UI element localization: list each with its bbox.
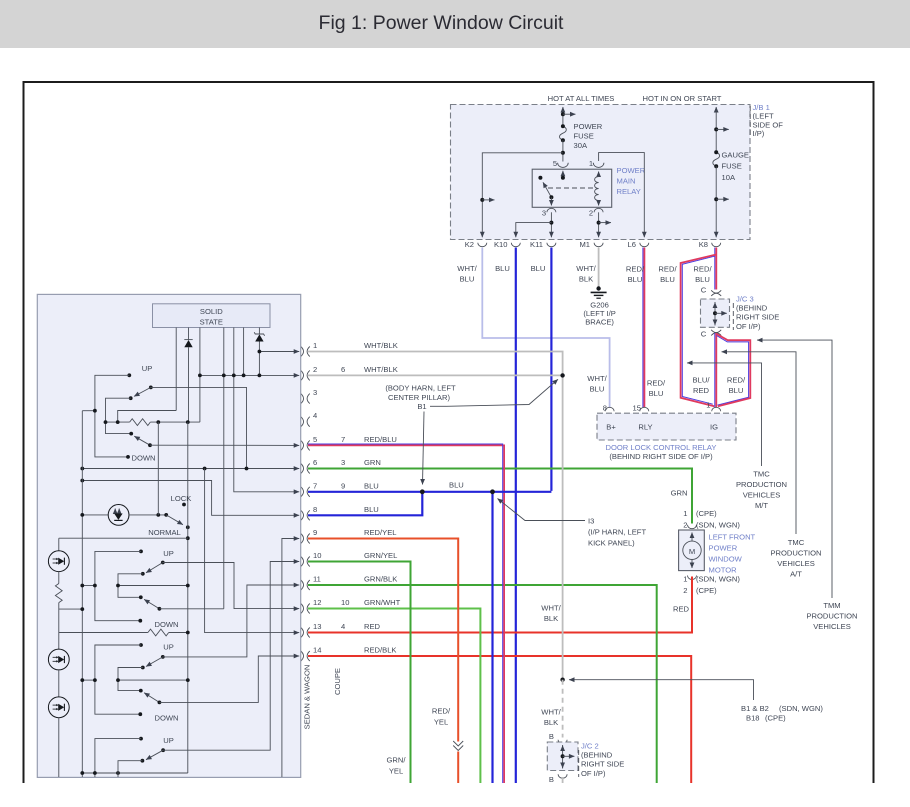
wire BLU from K10 (runs to bottom) bbox=[515, 248, 517, 784]
svg-text:30A: 30A bbox=[574, 141, 588, 150]
pin 5 of master switch connector bbox=[301, 440, 304, 450]
relay coil bbox=[598, 172, 600, 177]
svg-text:4: 4 bbox=[341, 622, 345, 631]
svg-text:YEL: YEL bbox=[389, 767, 403, 776]
SOLID STATE (box) bbox=[153, 304, 271, 328]
svg-text:RIGHT SIDE: RIGHT SIDE bbox=[736, 313, 779, 322]
svg-text:MOTOR: MOTOR bbox=[709, 566, 738, 575]
svg-text:TMC: TMC bbox=[788, 538, 805, 547]
switch 3 up output riser to pin 11 bbox=[163, 585, 299, 657]
svg-text:L6: L6 bbox=[628, 240, 636, 249]
driver switch blade up bbox=[149, 386, 153, 390]
photocoupler chain to PC3 bbox=[58, 633, 60, 650]
pin 7 of master switch connector bbox=[301, 487, 304, 497]
pin 3 connector arc bbox=[547, 208, 556, 212]
lock/normal switch blade bbox=[166, 515, 183, 525]
svg-text:WHT/BLK: WHT/BLK bbox=[364, 365, 398, 374]
pin 8 of master switch connector bbox=[301, 510, 304, 520]
svg-text:BLU: BLU bbox=[695, 275, 710, 284]
power fuse 30A feed wire from HOT AT ALL TIMES bbox=[562, 107, 564, 114]
svg-text:PRODUCTION: PRODUCTION bbox=[736, 480, 787, 489]
switch 2 blade up bbox=[161, 561, 165, 565]
svg-text:DOWN: DOWN bbox=[155, 620, 179, 629]
resistor R2 (vertical) bbox=[55, 584, 62, 603]
svg-text:BLU: BLU bbox=[628, 275, 643, 284]
svg-text:VEHICLES: VEHICLES bbox=[813, 622, 851, 631]
svg-text:J/C 2: J/C 2 bbox=[581, 742, 599, 751]
svg-text:11: 11 bbox=[313, 575, 321, 584]
zener diode D2 on drop x=259.4 bbox=[258, 328, 260, 335]
switch 4 blade up bbox=[161, 748, 165, 752]
switch 2 down output to lane 223.8 bbox=[159, 608, 223, 610]
svg-text:FUSE: FUSE bbox=[574, 132, 594, 141]
svg-text:PRODUCTION: PRODUCTION bbox=[806, 612, 857, 621]
wire pin2 to M1 bbox=[598, 212, 600, 237]
svg-text:WHT/: WHT/ bbox=[576, 264, 596, 273]
svg-text:BLU: BLU bbox=[660, 275, 675, 284]
fuse POWER FUSE 30A (element) bbox=[560, 126, 567, 140]
svg-text:(CPE): (CPE) bbox=[696, 509, 717, 518]
svg-text:12: 12 bbox=[313, 598, 321, 607]
svg-text:9: 9 bbox=[313, 528, 317, 537]
svg-text:M: M bbox=[689, 547, 695, 556]
switch 2 bus feed bbox=[82, 585, 95, 587]
wire BLU/RED center from C to relay pin 1 bbox=[714, 333, 716, 407]
svg-text:B18: B18 bbox=[746, 714, 760, 723]
svg-text:STATE: STATE bbox=[200, 318, 223, 327]
svg-text:PRODUCTION: PRODUCTION bbox=[770, 549, 821, 558]
wire branch left to K2 drop bbox=[482, 153, 563, 238]
svg-text:BLK: BLK bbox=[544, 614, 558, 623]
svg-text:2: 2 bbox=[589, 209, 593, 218]
photocoupler PC1 bbox=[108, 505, 129, 526]
pointer TMM production vehicles bbox=[757, 340, 832, 598]
switch 3 down output riser to pin 14 bbox=[159, 656, 299, 702]
svg-text:6: 6 bbox=[313, 458, 317, 467]
pin 1 connector arc bbox=[593, 163, 604, 168]
relay actuation dashed link bbox=[548, 187, 597, 189]
svg-text:BLU: BLU bbox=[460, 275, 475, 284]
callout I3 (I/P HARN, LEFT KICK PANEL) bbox=[498, 499, 586, 521]
svg-text:(LEFT: (LEFT bbox=[753, 112, 774, 121]
link NORMAL rail to photo chain bbox=[59, 537, 188, 539]
svg-text:FUSE: FUSE bbox=[722, 162, 742, 171]
svg-text:(BEHIND RIGHT SIDE OF I/P): (BEHIND RIGHT SIDE OF I/P) bbox=[609, 452, 713, 461]
master power window switch (box) bbox=[37, 294, 300, 777]
svg-text:C: C bbox=[701, 286, 707, 295]
svg-text:GRN: GRN bbox=[364, 458, 381, 467]
branch stub arrow at power fuse feed bbox=[563, 113, 576, 115]
svg-text:(BEHIND: (BEHIND bbox=[736, 304, 768, 313]
junction dot below fuse bbox=[561, 151, 565, 155]
pin 13 of master switch connector bbox=[301, 628, 304, 638]
solid state drop wires bbox=[175, 328, 177, 411]
wire RED/BLU left branch from K8 to relay pin 1 bbox=[682, 256, 714, 404]
svg-text:TMC: TMC bbox=[753, 470, 770, 479]
wire WHT/BLK from M1 to ground bbox=[598, 248, 600, 288]
svg-text:BLU: BLU bbox=[449, 481, 464, 490]
pin 1 of master switch connector bbox=[301, 347, 304, 357]
photocoupler PC3 bbox=[48, 649, 69, 670]
svg-text:COUPE: COUPE bbox=[333, 668, 342, 695]
pin 9 of master switch connector bbox=[301, 534, 304, 544]
wire RED/YEL from master switch pin 9 bbox=[308, 539, 458, 742]
svg-text:VEHICLES: VEHICLES bbox=[777, 559, 815, 568]
svg-text:GRN/: GRN/ bbox=[387, 756, 407, 765]
svg-text:BLU: BLU bbox=[364, 481, 379, 490]
svg-text:WINDOW: WINDOW bbox=[709, 555, 743, 564]
switch 2 DOWN contact bbox=[138, 619, 142, 623]
svg-text:RED/: RED/ bbox=[432, 707, 451, 716]
svg-text:WHT/: WHT/ bbox=[541, 604, 561, 613]
switch 2 blade down bbox=[139, 595, 143, 599]
svg-text:A/T: A/T bbox=[790, 570, 802, 579]
svg-text:B: B bbox=[549, 732, 554, 741]
svg-text:RELAY: RELAY bbox=[617, 187, 641, 196]
svg-text:NORMAL: NORMAL bbox=[148, 528, 181, 537]
junction block J/B 1 (dashed box) bbox=[451, 105, 751, 240]
svg-text:10: 10 bbox=[313, 551, 321, 560]
wire GRN from master switch pin 6 to motor bbox=[308, 469, 692, 524]
resistor R1 row bbox=[106, 421, 130, 423]
riser from resistor row to PC1 row bbox=[157, 422, 159, 515]
svg-text:UP: UP bbox=[163, 736, 174, 745]
svg-text:GRN/WHT: GRN/WHT bbox=[364, 598, 401, 607]
svg-text:8: 8 bbox=[313, 505, 317, 514]
svg-text:POWER: POWER bbox=[617, 166, 646, 175]
svg-text:BLU: BLU bbox=[364, 505, 379, 514]
wire to pin 1 bbox=[259, 351, 299, 353]
switch 3 DOWN contact bbox=[138, 712, 142, 716]
svg-text:UP: UP bbox=[142, 364, 153, 373]
svg-text:GRN/BLK: GRN/BLK bbox=[364, 575, 397, 584]
svg-text:2: 2 bbox=[683, 586, 687, 595]
pin 5 connector arc bbox=[558, 163, 569, 168]
junction connector J/C 2 (dashed box) bbox=[547, 742, 578, 771]
fuse GAUGE FUSE 10A (element) bbox=[713, 152, 720, 166]
fuse GAUGE FUSE 10A feed bbox=[715, 107, 717, 112]
wire break symbol on RED/YEL bbox=[453, 741, 463, 746]
svg-text:B1: B1 bbox=[417, 402, 426, 411]
svg-text:1: 1 bbox=[589, 159, 593, 168]
svg-text:2: 2 bbox=[683, 521, 687, 530]
wire BLU from K11 bbox=[550, 248, 552, 491]
svg-text:WHT/: WHT/ bbox=[541, 708, 561, 717]
switch 3 pivot rail bbox=[118, 668, 143, 691]
photocoupler PC1 row bbox=[82, 514, 108, 516]
svg-text:I/P): I/P) bbox=[753, 129, 765, 138]
svg-text:SIDE OF: SIDE OF bbox=[753, 120, 784, 129]
switch 4 bus feed / mid rail bbox=[82, 772, 188, 774]
connector M1 bbox=[594, 243, 603, 247]
svg-text:K2: K2 bbox=[465, 240, 474, 249]
svg-text:K11: K11 bbox=[530, 240, 543, 249]
svg-text:WHT/: WHT/ bbox=[457, 264, 477, 273]
svg-text:(SDN, WGN): (SDN, WGN) bbox=[779, 704, 823, 713]
svg-text:BLU: BLU bbox=[590, 385, 605, 394]
svg-text:K8: K8 bbox=[699, 240, 708, 249]
junction dot WHT/BLK at B1&B2 pointer bbox=[560, 678, 564, 682]
pointer TMC production vehicles A/T bbox=[722, 352, 797, 534]
wire pin1 riser to L6 bbox=[599, 153, 645, 238]
svg-text:LEFT FRONT: LEFT FRONT bbox=[709, 533, 756, 542]
junction dot on power fuse feed bbox=[561, 112, 565, 116]
svg-text:(CPE): (CPE) bbox=[696, 586, 717, 595]
title bar bbox=[0, 0, 910, 48]
svg-text:10A: 10A bbox=[722, 173, 736, 182]
driver switch up output to pin 6 riser bbox=[151, 387, 247, 468]
svg-text:KICK PANEL): KICK PANEL) bbox=[588, 539, 635, 548]
long common vertical bbox=[187, 422, 189, 773]
svg-text:RED/: RED/ bbox=[626, 265, 645, 274]
motor connector pins bottom bbox=[688, 576, 697, 580]
pointer B1 & B2 / B18 bbox=[569, 680, 754, 700]
svg-text:RED/: RED/ bbox=[658, 265, 677, 274]
switch 2 up output lane to pin 12 bbox=[163, 563, 299, 609]
svg-text:BLU: BLU bbox=[729, 386, 744, 395]
pin 12 of master switch connector bbox=[301, 604, 304, 614]
svg-text:HOT IN ON OR START: HOT IN ON OR START bbox=[643, 94, 722, 103]
riser to pin 9 bbox=[282, 539, 299, 778]
svg-text:RED: RED bbox=[693, 386, 710, 395]
svg-text:J/B 1: J/B 1 bbox=[753, 103, 770, 112]
svg-text:6: 6 bbox=[341, 365, 345, 374]
svg-text:DOWN: DOWN bbox=[155, 714, 179, 723]
drop x=223.8 bbox=[223, 328, 225, 376]
svg-text:B+: B+ bbox=[606, 423, 616, 432]
svg-text:RED: RED bbox=[364, 622, 381, 631]
svg-text:Fig 1: Power Window Circuit: Fig 1: Power Window Circuit bbox=[319, 12, 564, 34]
bus feed to driver switch bbox=[82, 410, 95, 412]
photocoupler PC2 bbox=[48, 551, 69, 572]
svg-text:POWER: POWER bbox=[709, 544, 738, 553]
svg-text:RED/: RED/ bbox=[647, 379, 666, 388]
pin 6 of master switch connector bbox=[301, 464, 304, 474]
switch 2 pivot rail bbox=[118, 574, 143, 598]
pin 14 of master switch connector bbox=[301, 651, 304, 661]
switch 3 blade down bbox=[139, 689, 143, 693]
wire RED/BLU right branch from C to relay pin 1 bbox=[717, 336, 749, 406]
svg-text:2: 2 bbox=[313, 365, 317, 374]
svg-text:10: 10 bbox=[341, 598, 349, 607]
ground G206 bbox=[596, 286, 600, 290]
svg-text:(I/P HARN, LEFT: (I/P HARN, LEFT bbox=[588, 528, 646, 537]
wire GRN/YEL from master switch pin 10 bbox=[308, 562, 411, 784]
svg-text:BLU: BLU bbox=[649, 389, 664, 398]
switch 3 blade up bbox=[161, 655, 165, 659]
driver switch down output to pin 5 bbox=[150, 444, 299, 446]
svg-text:7: 7 bbox=[341, 435, 345, 444]
pin 11 of master switch connector bbox=[301, 580, 304, 590]
wire RED/BLU from L6 to relay pin 15 bbox=[642, 248, 644, 408]
svg-text:GRN/YEL: GRN/YEL bbox=[364, 551, 397, 560]
wire pin3 to K10/K11 bbox=[550, 212, 552, 237]
svg-text:BLK: BLK bbox=[579, 275, 593, 284]
wire RED/BLU from master switch pin 5 bbox=[308, 445, 504, 783]
svg-text:POWER: POWER bbox=[574, 122, 603, 131]
svg-text:3: 3 bbox=[341, 458, 345, 467]
svg-text:RED/BLK: RED/BLK bbox=[364, 646, 397, 655]
svg-text:IG: IG bbox=[710, 423, 718, 432]
bus wire to pin 6 bbox=[82, 468, 299, 470]
pin 2 of master switch connector bbox=[301, 370, 304, 380]
svg-text:RIGHT SIDE: RIGHT SIDE bbox=[581, 760, 624, 769]
wire RED from motor to master switch pin 13 bbox=[308, 577, 692, 633]
wire to pin 2 bbox=[200, 374, 299, 376]
svg-text:TMM: TMM bbox=[823, 601, 840, 610]
motor LEFT FRONT POWER WINDOW MOTOR (box) bbox=[679, 530, 705, 571]
stub arrow on K2 drop bbox=[482, 199, 494, 201]
relay switch blade bbox=[538, 176, 542, 180]
wire WHT/BLK from master switch pins 1,2 bbox=[308, 352, 563, 376]
svg-text:14: 14 bbox=[313, 646, 321, 655]
svg-text:BLU: BLU bbox=[495, 264, 510, 273]
pointer TMC production vehicles M/T bbox=[687, 363, 762, 466]
svg-text:(CPE): (CPE) bbox=[765, 714, 786, 723]
svg-text:BLU: BLU bbox=[531, 264, 546, 273]
connector K2 bbox=[478, 243, 487, 247]
driver auto switch DOWN contact bbox=[126, 455, 130, 459]
wire GRN/WHT from master switch pin 12 bbox=[308, 609, 480, 784]
svg-text:BRACE): BRACE) bbox=[585, 318, 614, 327]
svg-text:J/C 3: J/C 3 bbox=[736, 295, 754, 304]
relay pin5 internal stub bbox=[562, 171, 564, 178]
svg-text:WHT/: WHT/ bbox=[587, 374, 607, 383]
drop x=243.6 bbox=[243, 328, 245, 376]
svg-text:1: 1 bbox=[706, 401, 710, 410]
svg-text:13: 13 bbox=[313, 622, 321, 631]
relay POWER MAIN RELAY (box) bbox=[532, 169, 612, 207]
svg-text:UP: UP bbox=[163, 549, 174, 558]
lane to pin 8 bbox=[82, 481, 299, 516]
svg-text:OF I/P): OF I/P) bbox=[736, 322, 761, 331]
junction dot on K2 drop bbox=[480, 198, 484, 202]
svg-text:BLK: BLK bbox=[544, 718, 558, 727]
wire WHT/BLU from K2 to door lock relay pin 8 bbox=[482, 248, 609, 408]
svg-text:1: 1 bbox=[683, 575, 687, 584]
svg-text:3: 3 bbox=[542, 209, 546, 218]
junction connector J/C 3 (dashed box) bbox=[701, 299, 730, 327]
wire BLU from master switch pin 8 bbox=[308, 492, 422, 516]
svg-text:(BEHIND: (BEHIND bbox=[581, 751, 613, 760]
svg-text:RED/: RED/ bbox=[727, 376, 746, 385]
svg-text:OF I/P): OF I/P) bbox=[581, 769, 606, 778]
pin 10 of master switch connector bbox=[301, 557, 304, 567]
svg-text:DOOR LOCK CONTROL RELAY: DOOR LOCK CONTROL RELAY bbox=[606, 443, 717, 452]
relay DOOR LOCK CONTROL RELAY (dashed box) bbox=[597, 413, 736, 440]
svg-text:1: 1 bbox=[683, 509, 687, 518]
svg-text:RED/BLU: RED/BLU bbox=[364, 435, 397, 444]
svg-text:(SDN, WGN): (SDN, WGN) bbox=[696, 575, 740, 584]
svg-text:GRN: GRN bbox=[671, 489, 688, 498]
lane x=204.6 feeding pin 13 bbox=[205, 469, 300, 633]
svg-text:BLU/: BLU/ bbox=[693, 376, 711, 385]
svg-text:K10: K10 bbox=[494, 240, 508, 249]
svg-text:RED/YEL: RED/YEL bbox=[364, 528, 397, 537]
svg-text:(SDN, WGN): (SDN, WGN) bbox=[696, 521, 740, 530]
wire GRN/BLK from master switch pin 11 bbox=[308, 585, 657, 783]
svg-text:3: 3 bbox=[313, 388, 317, 397]
connector K10 bbox=[511, 243, 520, 247]
svg-text:YEL: YEL bbox=[434, 718, 448, 727]
svg-text:(BODY HARN, LEFT: (BODY HARN, LEFT bbox=[385, 384, 456, 393]
pin 3 of master switch connector bbox=[301, 394, 304, 404]
svg-text:9: 9 bbox=[341, 481, 345, 490]
svg-text:RED: RED bbox=[673, 605, 690, 614]
svg-text:WHT/BLK: WHT/BLK bbox=[364, 341, 398, 350]
driver switch pivot rail bbox=[106, 398, 132, 433]
svg-text:I3: I3 bbox=[588, 517, 594, 526]
svg-text:DOWN: DOWN bbox=[132, 454, 156, 463]
svg-text:1: 1 bbox=[313, 341, 317, 350]
svg-text:SOLID: SOLID bbox=[200, 307, 223, 316]
svg-text:VEHICLES: VEHICLES bbox=[743, 491, 781, 500]
drop x=233.8 continuing to pin 7 bbox=[234, 328, 299, 492]
photocoupler PC4 bbox=[48, 697, 69, 718]
pin 4 of master switch connector bbox=[301, 417, 304, 427]
svg-text:HOT AT ALL TIMES: HOT AT ALL TIMES bbox=[548, 94, 615, 103]
svg-text:M/T: M/T bbox=[755, 501, 768, 510]
svg-text:5: 5 bbox=[553, 159, 557, 168]
svg-text:SEDAN & WAGON: SEDAN & WAGON bbox=[303, 665, 312, 730]
connector L6 bbox=[640, 243, 649, 247]
svg-text:5: 5 bbox=[313, 435, 317, 444]
connector K8 bbox=[712, 243, 721, 247]
wire RED/BLK from master switch pin 14 bbox=[308, 656, 691, 783]
switch 3 bus feed bbox=[82, 679, 95, 681]
svg-text:B: B bbox=[549, 775, 554, 784]
diode D1 on solid-state drop bbox=[188, 328, 190, 341]
svg-text:MAIN: MAIN bbox=[617, 177, 636, 186]
photocoupler chain vertical bbox=[58, 538, 60, 551]
svg-text:B1 & B2: B1 & B2 bbox=[741, 704, 769, 713]
svg-text:UP: UP bbox=[163, 643, 174, 652]
svg-text:GAUGE: GAUGE bbox=[722, 151, 749, 160]
NORMAL contact bbox=[186, 525, 190, 529]
connector K11 bbox=[547, 243, 556, 247]
pin 2 connector arc bbox=[594, 208, 603, 212]
link photo chain to bus bbox=[59, 608, 83, 610]
svg-text:RLY: RLY bbox=[638, 423, 652, 432]
main bus vertical bbox=[81, 411, 83, 777]
dashed WHT/BLK to J/C 2 bbox=[562, 680, 564, 738]
drop to wire2 row x=199.9 bbox=[199, 328, 201, 423]
wire fuse to node below bbox=[562, 140, 564, 161]
svg-text:CENTER PILLAR): CENTER PILLAR) bbox=[388, 393, 451, 402]
svg-text:C: C bbox=[701, 330, 707, 339]
svg-text:M1: M1 bbox=[579, 240, 590, 249]
wire gauge fuse to K8 bbox=[715, 166, 717, 237]
svg-text:RED/: RED/ bbox=[693, 265, 712, 274]
wire inside to pin 13 with resistor R3 bbox=[59, 632, 148, 634]
wire BLU from master switch pin 7 joining K11 bbox=[308, 491, 551, 493]
lane x=223.8 to switch 2 down output bbox=[223, 375, 225, 608]
svg-text:4: 4 bbox=[313, 411, 317, 420]
svg-text:7: 7 bbox=[313, 481, 317, 490]
wire RED/BLU from K8 down to C bbox=[714, 248, 716, 290]
driver switch blade down bbox=[129, 432, 133, 436]
switch 4 up output riser to pin 10 bbox=[163, 562, 299, 751]
